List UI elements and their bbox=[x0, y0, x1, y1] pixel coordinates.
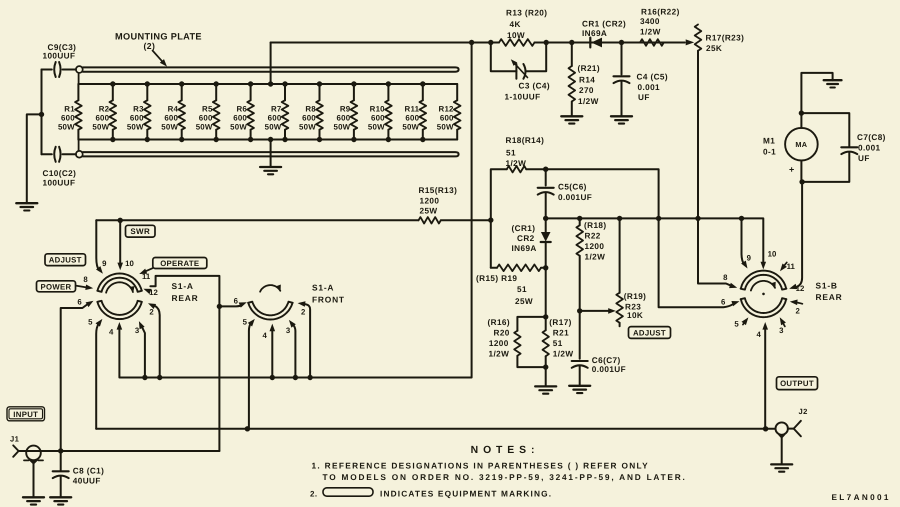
svg-text:2: 2 bbox=[301, 308, 306, 317]
svg-text:1200: 1200 bbox=[585, 242, 605, 251]
svg-text:2: 2 bbox=[149, 308, 154, 317]
svg-text:S1-A: S1-A bbox=[312, 283, 334, 293]
svg-text:+: + bbox=[789, 165, 795, 175]
svg-text:INDICATES EQUIPMENT MARKING.: INDICATES EQUIPMENT MARKING. bbox=[380, 488, 552, 498]
svg-text:FRONT: FRONT bbox=[312, 295, 345, 305]
svg-text:INPUT: INPUT bbox=[13, 410, 38, 419]
svg-text:J1: J1 bbox=[10, 435, 20, 444]
svg-text:50W: 50W bbox=[230, 122, 247, 131]
svg-text:(R21): (R21) bbox=[578, 64, 600, 73]
svg-text:600: 600 bbox=[199, 114, 213, 123]
svg-text:R8: R8 bbox=[305, 105, 316, 114]
svg-text:9: 9 bbox=[102, 259, 107, 268]
svg-text:3: 3 bbox=[779, 326, 784, 335]
svg-text:1/2W: 1/2W bbox=[640, 27, 661, 36]
svg-text:C7(C8): C7(C8) bbox=[857, 133, 886, 142]
svg-text:50W: 50W bbox=[368, 122, 385, 131]
svg-text:(R16): (R16) bbox=[488, 318, 510, 327]
svg-text:1/2W: 1/2W bbox=[585, 253, 606, 262]
svg-text:0.001UF: 0.001UF bbox=[558, 193, 592, 202]
svg-text:1/2W: 1/2W bbox=[578, 97, 599, 106]
svg-text:50W: 50W bbox=[265, 122, 282, 131]
svg-text:1200: 1200 bbox=[420, 197, 440, 206]
svg-text:1/2W: 1/2W bbox=[506, 159, 527, 168]
svg-text:CR1 (CR2): CR1 (CR2) bbox=[582, 20, 626, 29]
svg-text:(CR1): (CR1) bbox=[512, 224, 536, 233]
svg-text:C3 (C4): C3 (C4) bbox=[519, 82, 550, 91]
svg-text:C4 (C5): C4 (C5) bbox=[637, 73, 668, 82]
svg-text:4K: 4K bbox=[510, 20, 521, 29]
svg-text:S1-B: S1-B bbox=[816, 281, 838, 291]
svg-text:8: 8 bbox=[723, 273, 728, 282]
svg-text:25W: 25W bbox=[515, 297, 533, 306]
svg-text:270: 270 bbox=[579, 86, 594, 95]
svg-text:R4: R4 bbox=[168, 105, 179, 114]
svg-text:2: 2 bbox=[796, 306, 801, 315]
svg-text:3400: 3400 bbox=[640, 17, 660, 26]
svg-text:10W: 10W bbox=[507, 31, 525, 40]
svg-text:12: 12 bbox=[796, 284, 805, 293]
svg-text:MOUNTING PLATE: MOUNTING PLATE bbox=[115, 32, 202, 42]
svg-text:25W: 25W bbox=[420, 207, 438, 216]
svg-text:600: 600 bbox=[268, 114, 282, 123]
svg-text:25K: 25K bbox=[706, 44, 722, 53]
svg-text:IN69A: IN69A bbox=[582, 29, 607, 38]
svg-text:SWR: SWR bbox=[130, 227, 150, 236]
svg-text:NOTES:: NOTES: bbox=[471, 445, 540, 456]
svg-text:C5(C6): C5(C6) bbox=[558, 183, 587, 192]
svg-text:50W: 50W bbox=[299, 122, 316, 131]
svg-text:R21: R21 bbox=[553, 329, 569, 338]
svg-text:9: 9 bbox=[747, 253, 752, 262]
svg-text:(R15) R19: (R15) R19 bbox=[476, 274, 517, 283]
svg-text:REAR: REAR bbox=[172, 293, 199, 303]
svg-text:10K: 10K bbox=[627, 311, 643, 320]
svg-text:8: 8 bbox=[83, 275, 88, 284]
svg-text:(R18): (R18) bbox=[584, 221, 606, 230]
svg-text:R11: R11 bbox=[405, 105, 420, 114]
svg-text:(R19): (R19) bbox=[624, 292, 646, 301]
svg-text:R12: R12 bbox=[439, 105, 454, 114]
svg-text:3: 3 bbox=[286, 326, 291, 335]
svg-text:6: 6 bbox=[234, 297, 239, 306]
svg-text:600: 600 bbox=[405, 114, 419, 123]
svg-text:5: 5 bbox=[88, 318, 93, 327]
svg-text:R13 (R20): R13 (R20) bbox=[506, 9, 547, 18]
svg-text:2.: 2. bbox=[310, 489, 317, 498]
svg-text:50W: 50W bbox=[127, 122, 144, 131]
svg-text:0.001UF: 0.001UF bbox=[592, 365, 626, 374]
svg-text:R6: R6 bbox=[237, 105, 248, 114]
svg-text:ADJUST: ADJUST bbox=[633, 329, 666, 338]
svg-text:51: 51 bbox=[553, 339, 563, 348]
svg-text:IN69A: IN69A bbox=[512, 244, 537, 253]
svg-text:50W: 50W bbox=[58, 122, 75, 131]
svg-text:6: 6 bbox=[721, 297, 726, 306]
svg-text:11: 11 bbox=[787, 262, 796, 271]
svg-text:R7: R7 bbox=[271, 105, 282, 114]
svg-text:600: 600 bbox=[337, 114, 351, 123]
svg-text:5: 5 bbox=[243, 318, 248, 327]
svg-text:MA: MA bbox=[795, 140, 807, 149]
svg-text:50W: 50W bbox=[196, 122, 213, 131]
svg-text:1/2W: 1/2W bbox=[553, 350, 574, 359]
svg-text:C8 (C1): C8 (C1) bbox=[73, 467, 104, 476]
svg-text:50W: 50W bbox=[437, 122, 454, 131]
svg-text:R14: R14 bbox=[579, 76, 595, 85]
svg-text:50W: 50W bbox=[161, 122, 178, 131]
svg-text:600: 600 bbox=[164, 114, 178, 123]
svg-text:50W: 50W bbox=[402, 122, 419, 131]
svg-text:10: 10 bbox=[768, 250, 777, 259]
svg-text:1-10UUF: 1-10UUF bbox=[505, 92, 541, 101]
svg-text:C6(C7): C6(C7) bbox=[592, 356, 621, 365]
svg-text:EL7AN001: EL7AN001 bbox=[832, 493, 891, 502]
svg-text:4: 4 bbox=[263, 331, 268, 340]
svg-text:UF: UF bbox=[858, 154, 870, 163]
svg-text:600: 600 bbox=[302, 114, 316, 123]
svg-text:OUTPUT: OUTPUT bbox=[780, 379, 814, 388]
svg-text:0.001: 0.001 bbox=[638, 83, 661, 92]
svg-text:4: 4 bbox=[109, 328, 114, 337]
svg-text:1/2W: 1/2W bbox=[489, 350, 510, 359]
svg-text:REAR: REAR bbox=[816, 292, 843, 302]
svg-text:R10: R10 bbox=[370, 105, 385, 114]
svg-text:C10(C2): C10(C2) bbox=[43, 169, 77, 178]
svg-text:100UUF: 100UUF bbox=[43, 52, 76, 61]
svg-text:R9: R9 bbox=[340, 105, 351, 114]
svg-text:1200: 1200 bbox=[489, 339, 509, 348]
svg-text:40UUF: 40UUF bbox=[73, 477, 101, 486]
svg-text:6: 6 bbox=[77, 298, 82, 307]
svg-text:100UUF: 100UUF bbox=[43, 179, 76, 188]
svg-text:12: 12 bbox=[149, 288, 158, 297]
svg-text:50W: 50W bbox=[333, 122, 350, 131]
svg-text:R3: R3 bbox=[133, 105, 144, 114]
svg-text:S1-A: S1-A bbox=[172, 281, 194, 291]
svg-text:600: 600 bbox=[371, 114, 385, 123]
svg-text:600: 600 bbox=[61, 114, 75, 123]
svg-text:R1: R1 bbox=[64, 105, 75, 114]
svg-text:POWER: POWER bbox=[41, 282, 72, 291]
svg-text:50W: 50W bbox=[92, 122, 109, 131]
svg-text:R15(R13): R15(R13) bbox=[419, 186, 458, 195]
svg-text:600: 600 bbox=[95, 114, 109, 123]
svg-text:600: 600 bbox=[440, 114, 454, 123]
svg-text:0-1: 0-1 bbox=[763, 148, 776, 157]
svg-text:(2): (2) bbox=[144, 41, 156, 51]
svg-text:TO MODELS ON ORDER NO. 3219-PP: TO MODELS ON ORDER NO. 3219-PP-59, 3241-… bbox=[323, 472, 687, 482]
svg-text:R18(R14): R18(R14) bbox=[506, 136, 545, 145]
svg-text:600: 600 bbox=[130, 114, 144, 123]
svg-text:4: 4 bbox=[757, 330, 762, 339]
svg-text:R16(R22): R16(R22) bbox=[641, 8, 680, 17]
svg-text:OPERATE: OPERATE bbox=[160, 259, 199, 268]
svg-text:J2: J2 bbox=[799, 407, 808, 416]
svg-text:ADJUST: ADJUST bbox=[49, 256, 82, 265]
svg-text:10: 10 bbox=[125, 259, 134, 268]
svg-text:51: 51 bbox=[506, 149, 516, 158]
svg-text:1. REFERENCE DESIGNATIONS IN P: 1. REFERENCE DESIGNATIONS IN PARENTHESES… bbox=[312, 461, 650, 471]
svg-text:M1: M1 bbox=[763, 137, 775, 146]
svg-text:R2: R2 bbox=[99, 105, 110, 114]
svg-text:(R17): (R17) bbox=[549, 318, 571, 327]
svg-text:CR2: CR2 bbox=[517, 234, 535, 243]
svg-text:UF: UF bbox=[638, 93, 650, 102]
svg-text:11: 11 bbox=[142, 272, 151, 281]
svg-text:51: 51 bbox=[517, 285, 527, 294]
svg-text:3: 3 bbox=[135, 326, 140, 335]
svg-text:R20: R20 bbox=[494, 329, 510, 338]
svg-text:5: 5 bbox=[734, 319, 739, 328]
svg-text:R17(R23): R17(R23) bbox=[706, 34, 745, 43]
svg-text:600: 600 bbox=[233, 114, 247, 123]
svg-text:R22: R22 bbox=[585, 232, 601, 241]
svg-text:R5: R5 bbox=[202, 105, 213, 114]
svg-text:0.001: 0.001 bbox=[858, 144, 881, 153]
